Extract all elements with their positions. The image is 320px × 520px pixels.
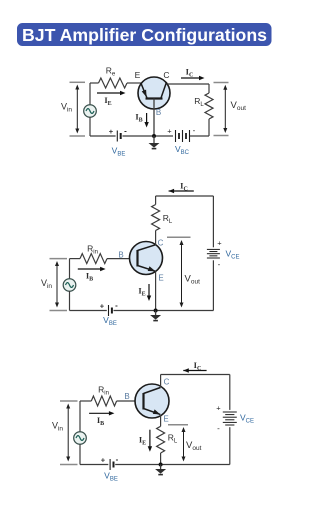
svg-text:B: B <box>156 108 161 117</box>
svg-text:E: E <box>135 70 141 80</box>
svg-text:+: + <box>216 404 221 413</box>
svg-text:B: B <box>124 392 129 401</box>
svg-text:C: C <box>163 70 169 80</box>
svg-text:C: C <box>164 378 170 387</box>
svg-text:-: - <box>124 126 127 135</box>
svg-text:-: - <box>218 260 221 269</box>
svg-text:C: C <box>158 239 164 248</box>
svg-text:+: + <box>100 301 105 310</box>
svg-text:-: - <box>116 455 119 464</box>
svg-text:BJT Amplifier Configurations: BJT Amplifier Configurations <box>22 25 267 45</box>
svg-text:-: - <box>115 301 118 310</box>
svg-text:-: - <box>193 126 196 135</box>
svg-text:+: + <box>167 127 172 136</box>
svg-text:E: E <box>163 415 168 424</box>
svg-text:-: - <box>217 424 220 433</box>
svg-text:B: B <box>118 251 123 260</box>
svg-text:+: + <box>109 127 114 136</box>
svg-text:+: + <box>217 239 222 248</box>
svg-text:+: + <box>101 455 106 464</box>
svg-text:E: E <box>158 274 163 283</box>
